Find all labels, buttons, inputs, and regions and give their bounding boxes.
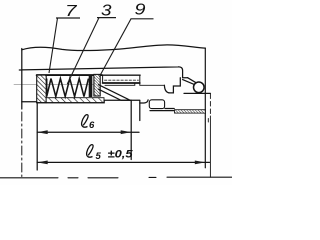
wire second right vertical [209, 94, 211, 116]
label 7 [49, 3, 80, 73]
ball pocket lower diagonal [183, 80, 195, 85]
wedge lower ramp [99, 89, 131, 100]
wedge upper ramp [99, 85, 131, 101]
dimension line l6 [37, 130, 139, 134]
wire small tick below band [207, 119, 209, 123]
svg-text:9: 9 [135, 2, 146, 19]
dimension text l6 [82, 115, 95, 131]
plunger cross-section [94, 74, 100, 96]
label 3 [67, 3, 116, 85]
wire left axis line (dash-dot lower part) [21, 112, 23, 177]
top outline of bore [22, 67, 188, 78]
wavy top break line of housing [22, 45, 206, 51]
wire under-plate line left [105, 83, 135, 85]
svg-text:5: 5 [96, 151, 102, 162]
ball (roller) [194, 82, 205, 93]
spring 3 zigzag [47, 79, 89, 97]
wire left break line (solid upper part) [21, 49, 23, 110]
dimension extension line middle [130, 100, 132, 159]
ball pocket upper diagonal [188, 78, 197, 83]
foot box [149, 100, 164, 109]
lower hatched wall of housing [46, 98, 104, 103]
wire bottom border line [0, 176, 232, 179]
wire ledge under ball [184, 92, 210, 94]
rod 9 top plate [103, 75, 140, 83]
dimension extension line left [36, 104, 38, 171]
svg-text:3: 3 [101, 3, 112, 20]
top line of spring bore [37, 74, 102, 76]
hatched lower right strip [175, 110, 206, 113]
axis centerline [14, 83, 96, 85]
label 9 [100, 2, 154, 77]
svg-text:±0,5: ±0,5 [108, 149, 134, 161]
dimension text l5 +-0.5 [87, 145, 134, 162]
wire pocket [164, 78, 180, 93]
wire bottom outline of housing [22, 100, 140, 102]
wire foot vertical short [139, 101, 141, 121]
dimension line l5 [37, 161, 209, 165]
wire foot pad lines [150, 109, 174, 111]
rod 9 hidden dashed line [105, 79, 139, 81]
plug 7 hatched left wall [37, 75, 47, 103]
right outer edge of housing [204, 48, 206, 168]
wire small tick left of break line [19, 69, 22, 71]
spring end dense coils [89, 76, 93, 97]
svg-text:6: 6 [89, 120, 95, 131]
wire under-plate line right [140, 83, 165, 85]
wire rounded step [140, 100, 148, 103]
